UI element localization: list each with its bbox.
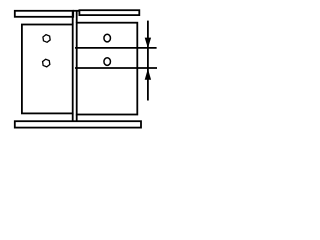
dimension arrow up [145, 69, 151, 80]
dimension extension line 1 [75, 47, 157, 49]
bolt hex head 2 [43, 59, 50, 67]
bottom flange bar [15, 121, 141, 127]
dimension extension line 2 [75, 67, 157, 69]
joint vertical A upper connector [72, 11, 74, 25]
bolt circle 2 [104, 58, 111, 66]
dimension arrow down [145, 38, 151, 49]
bolt circle 1 [104, 34, 111, 42]
right web plate [77, 23, 138, 115]
dimension vertical line [147, 21, 149, 101]
bolt hex head 1 [43, 35, 50, 43]
top-left flange bar [15, 11, 73, 17]
top gap cover line [73, 10, 80, 12]
joint vertical B lower connector [76, 115, 78, 122]
top-right flange bar [79, 10, 139, 15]
left web plate [22, 25, 73, 114]
joint vertical B upper connector [76, 11, 78, 23]
joint vertical A lower connector [72, 113, 74, 121]
